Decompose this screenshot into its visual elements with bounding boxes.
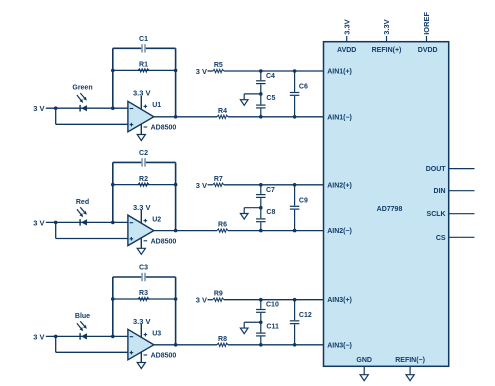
op-amp U1 inverting input mark [130,108,134,110]
svg-text:U3: U3 [152,330,161,337]
svg-text:AIN3(−): AIN3(−) [327,342,352,349]
light arrow 2 into D1 [80,93,87,101]
svg-text:AVDD: AVDD [337,47,356,54]
op-amp U3 non-inverting input mark [130,351,134,355]
svg-text:Blue: Blue [75,313,90,320]
resistor R3 [138,297,149,300]
pin DVDD stub [426,36,428,42]
capacitor C11 [256,332,266,336]
label R2 [139,176,148,183]
wire 3V rail to AIN1(+) [208,70,324,72]
wire feedback loop left/top/right (block 1) [113,48,176,117]
resistor R5 [213,69,224,72]
op-amp U3 supply + mark [144,333,148,337]
capacitor C1 [141,44,146,53]
ground at capacitor ladder (block 2) [240,214,248,220]
resistor R6 [217,229,228,232]
wire 3V rail to AIN3(+) [208,299,324,301]
capacitor C7 [256,194,266,198]
op-amp U2 AD8500 [128,215,154,246]
svg-text:C9: C9 [299,197,308,204]
op-amp U1 AD8500 [128,101,154,132]
svg-text:C7: C7 [266,187,275,194]
label C6 [299,84,308,91]
node feedback tap on inverting input (block 1) [111,106,115,110]
capacitor C12 [290,320,300,324]
svg-text:CS: CS [436,235,446,242]
node feedback to output (block 3) [174,343,178,347]
label R3 [139,290,148,297]
node R-C feedback left (block 1) [111,69,115,73]
svg-text:DOUT: DOUT [426,166,447,173]
svg-text:AIN2(−): AIN2(−) [327,228,352,235]
resistor R7 [213,183,224,186]
node diff cap top (block 1) [293,69,297,73]
op-amp U2 non-inverting input mark [130,237,134,241]
wire feedback resistor row (block 2) [113,184,176,186]
pin label SCLK [427,211,446,218]
pin label AVDD [337,47,356,54]
label 3.3 V supply (U3) [133,317,151,326]
svg-text:3 V: 3 V [33,218,44,227]
svg-text:C4: C4 [266,73,275,80]
pin GND stub [363,366,365,374]
ground at op-amp U1 [137,135,145,141]
node ladder bottom (block 3) [259,343,263,347]
pin DOUT stub [449,168,475,170]
svg-text:REFIN(+): REFIN(+) [372,47,402,54]
capacitor C5 [256,104,266,108]
op-amp U2 negative supply pin [140,238,142,249]
svg-text:AD7798: AD7798 [377,206,403,213]
op-amp U3 negative supply pin [140,352,142,363]
capacitor C4 [256,80,266,84]
label R5 [214,62,223,69]
net label 3.3V at REFIN(+) [382,19,391,34]
svg-text:AIN1(+): AIN1(+) [327,69,352,76]
svg-text:C6: C6 [299,84,308,91]
op-amp U1 supply - mark [144,126,148,128]
wire differential capacitor column (block 3) [294,300,296,345]
svg-text:Red: Red [76,199,89,206]
svg-text:DIN: DIN [434,188,446,195]
wire ladder mid to ground (block 1) [244,94,261,100]
label AD8500 (U1) [151,125,177,132]
net label 3.3V at AVDD [342,19,351,34]
capacitor C10 [256,309,266,313]
ground at capacitor ladder (block 3) [240,328,248,334]
light arrow 2 into D3 [80,321,87,329]
svg-text:R8: R8 [218,336,227,343]
label 3 V rail (block 2) [196,181,207,190]
svg-text:R3: R3 [139,290,148,297]
label 3.3 V supply (U1) [133,89,151,98]
op-amp U1 non-inverting input mark [130,123,134,127]
svg-text:C12: C12 [299,312,312,319]
wire to non-inverting input of U1 [56,108,128,124]
pin label DIN [434,188,446,195]
label U3 [152,330,161,337]
wire 3V to op-amp U1 inverting input (main row block 1) [46,107,128,109]
pin DIN stub [449,190,475,192]
ground at capacitor ladder (block 1) [240,100,248,106]
op-amp U1 positive supply pin [140,96,142,109]
pin label AIN3(+) [327,297,352,304]
label Green [72,85,92,92]
svg-text:Green: Green [72,85,92,92]
pin SCLK stub [449,213,475,215]
svg-text:IOREF: IOREF [422,11,431,34]
svg-text:3.3 V: 3.3 V [133,317,151,326]
svg-text:U2: U2 [152,216,161,223]
pin label GND [356,357,372,364]
svg-text:R2: R2 [139,176,148,183]
label AD8500 (U3) [151,353,177,360]
label C3 [139,265,148,272]
ground at op-amp U2 [137,248,145,254]
label R9 [214,291,223,298]
node R-C feedback left (block 3) [111,297,115,301]
label C5 [266,95,275,102]
node ladder mid (block 2) [259,206,263,210]
wire to non-inverting input of U2 [56,222,128,238]
wire feedback resistor row (block 1) [113,69,176,71]
light arrow 1 into D3 [77,323,83,331]
svg-text:3 V: 3 V [33,332,44,341]
photodiode D1 (Green) [80,105,87,112]
svg-text:AD8500: AD8500 [151,353,177,360]
node feedback tap on inverting input (block 2) [111,221,115,225]
node diff cap bottom (block 1) [293,115,297,119]
power 3 V source label (block 1) [33,104,44,113]
node feedback to output (block 1) [174,115,178,119]
wire op-amp U2 output to AIN2(-) [154,230,324,232]
label R1 [139,62,148,69]
photodiode D3 (Blue) [80,333,87,340]
svg-text:3.3V: 3.3V [382,19,391,34]
svg-text:C1: C1 [139,36,148,43]
ground at op-amp U3 [137,363,145,369]
wire feedback resistor row (block 3) [113,298,176,300]
op-amp U3 AD8500 [128,329,154,360]
svg-text:3.3V: 3.3V [342,19,351,34]
ground at GND [360,375,368,381]
node 3V junction (block 3) [54,335,58,339]
ADC U4 AD7798 body [324,42,449,367]
svg-text:AIN2(+): AIN2(+) [327,182,352,189]
pin label AIN1(−) [327,114,352,121]
light arrow 1 into D2 [77,209,83,217]
light arrow 2 into D2 [80,207,87,215]
capacitor C6 [290,92,300,96]
pin label AIN2(+) [327,182,352,189]
label C8 [266,209,275,216]
svg-text:3.3 V: 3.3 V [133,203,151,212]
pin REFIN(−) stub [409,366,411,374]
node ladder mid (block 3) [259,320,263,324]
svg-text:GND: GND [356,357,372,364]
ground at REFIN(−) [406,375,414,381]
label C11 [266,323,279,330]
label 3.3 V supply (U2) [133,203,151,212]
svg-text:AIN1(−): AIN1(−) [327,114,352,121]
power 3 V source label (block 2) [33,218,44,227]
svg-text:C2: C2 [139,150,148,157]
pin label AIN3(−) [327,342,352,349]
node R-C feedback right (block 2) [174,183,178,187]
svg-text:3 V: 3 V [196,67,207,76]
svg-text:DVDD: DVDD [418,47,438,54]
label AD7798 [377,206,403,213]
wire differential capacitor column (block 1) [294,71,296,117]
pin label AIN1(+) [327,69,352,76]
svg-text:REFIN(−): REFIN(−) [395,357,425,364]
wire 3V to op-amp U2 inverting input (main row block 2) [46,221,128,223]
resistor R2 [138,183,149,186]
op-amp U2 supply - mark [144,240,148,242]
label Red [76,199,89,206]
pin label REFIN(−) [395,357,425,364]
node ladder bottom (block 1) [259,115,263,119]
node diff cap top (block 3) [293,298,297,302]
pin AVDD stub [346,36,348,42]
node R-C feedback right (block 1) [174,69,178,73]
capacitor C9 [290,206,300,210]
label Blue [75,313,90,320]
node 3V junction (block 2) [54,221,58,225]
capacitor C8 [256,218,266,222]
node ladder top (block 1) [259,69,263,73]
svg-text:R7: R7 [214,176,223,183]
svg-text:3 V: 3 V [33,104,44,113]
svg-text:R9: R9 [214,291,223,298]
node 3V junction (block 1) [54,106,58,110]
svg-text:C10: C10 [266,302,279,309]
svg-text:AD8500: AD8500 [151,239,177,246]
wire ladder mid to ground (block 2) [244,208,261,214]
label R6 [218,222,227,229]
label C7 [266,187,275,194]
label C12 [299,312,312,319]
pin CS stub [449,236,475,238]
pin label AIN2(−) [327,228,352,235]
node diff cap bottom (block 2) [293,229,297,233]
label C4 [266,73,275,80]
pin label DVDD [418,47,438,54]
resistor R4 [217,115,228,118]
svg-text:C3: C3 [139,265,148,272]
node feedback to output (block 2) [174,229,178,233]
capacitor C3 [141,273,146,282]
pin label DOUT [426,166,447,173]
node ladder bottom (block 2) [259,229,263,233]
resistor R8 [217,343,228,346]
wire 3V rail to AIN2(+) [208,184,324,186]
node diff cap bottom (block 3) [293,343,297,347]
pin label REFIN(+) [372,47,402,54]
resistor R9 [213,298,224,301]
wire feedback loop left/top/right (block 3) [113,277,176,345]
label AD8500 (U2) [151,239,177,246]
capacitor C2 [141,158,146,167]
svg-text:R4: R4 [218,108,227,115]
label R8 [218,336,227,343]
svg-text:C8: C8 [266,209,275,216]
op-amp U2 positive supply pin [140,210,142,223]
wire op-amp U3 output to AIN3(-) [154,344,324,346]
node ladder top (block 2) [259,183,263,187]
net label IOREF at DVDD [422,11,431,34]
label C10 [266,302,279,309]
wire op-amp U1 output to AIN1(-) [154,116,324,118]
photodiode D2 (Red) [80,219,87,226]
label 3 V rail (block 1) [196,67,207,76]
power 3 V source label (block 3) [33,332,44,341]
svg-text:AIN3(+): AIN3(+) [327,297,352,304]
label 3 V rail (block 3) [196,296,207,305]
pin label CS [436,235,446,242]
node diff cap top (block 2) [293,183,297,187]
svg-text:R5: R5 [214,62,223,69]
wire capacitor ladder column (block 2) [260,185,262,231]
svg-text:R1: R1 [139,62,148,69]
wire capacitor ladder column (block 1) [260,71,262,117]
wire feedback loop left/top/right (block 2) [113,162,176,230]
label U2 [152,216,161,223]
wire differential capacitor column (block 2) [294,185,296,231]
op-amp U3 inverting input mark [130,336,134,338]
op-amp U3 supply - mark [144,354,148,356]
wire ladder mid to ground (block 3) [244,322,261,328]
node R-C feedback left (block 2) [111,183,115,187]
node feedback tap on inverting input (block 3) [111,335,115,339]
node R-C feedback right (block 3) [174,297,178,301]
wire 3V to op-amp U3 inverting input (main row block 3) [46,335,128,337]
svg-text:U1: U1 [152,102,161,109]
svg-text:C11: C11 [266,323,279,330]
op-amp U1 supply + mark [144,105,148,109]
label R7 [214,176,223,183]
op-amp U3 positive supply pin [140,324,142,337]
wire to non-inverting input of U3 [56,336,128,352]
node ladder mid (block 1) [259,92,263,96]
svg-text:SCLK: SCLK [427,211,446,218]
node ladder top (block 3) [259,298,263,302]
wire capacitor ladder column (block 3) [260,300,262,345]
op-amp U2 supply + mark [144,219,148,223]
pin REFIN(+) stub [386,36,388,42]
op-amp U1 negative supply pin [140,124,142,135]
op-amp U2 inverting input mark [130,222,134,224]
svg-text:C5: C5 [266,95,275,102]
svg-text:3 V: 3 V [196,181,207,190]
svg-text:3 V: 3 V [196,296,207,305]
label C9 [299,197,308,204]
resistor R1 [138,69,149,72]
svg-text:3.3 V: 3.3 V [133,89,151,98]
label R4 [218,108,227,115]
svg-text:AD8500: AD8500 [151,125,177,132]
label U1 [152,102,161,109]
label C2 [139,150,148,157]
label C1 [139,36,148,43]
light arrow 1 into D1 [77,95,83,103]
svg-text:R6: R6 [218,222,227,229]
